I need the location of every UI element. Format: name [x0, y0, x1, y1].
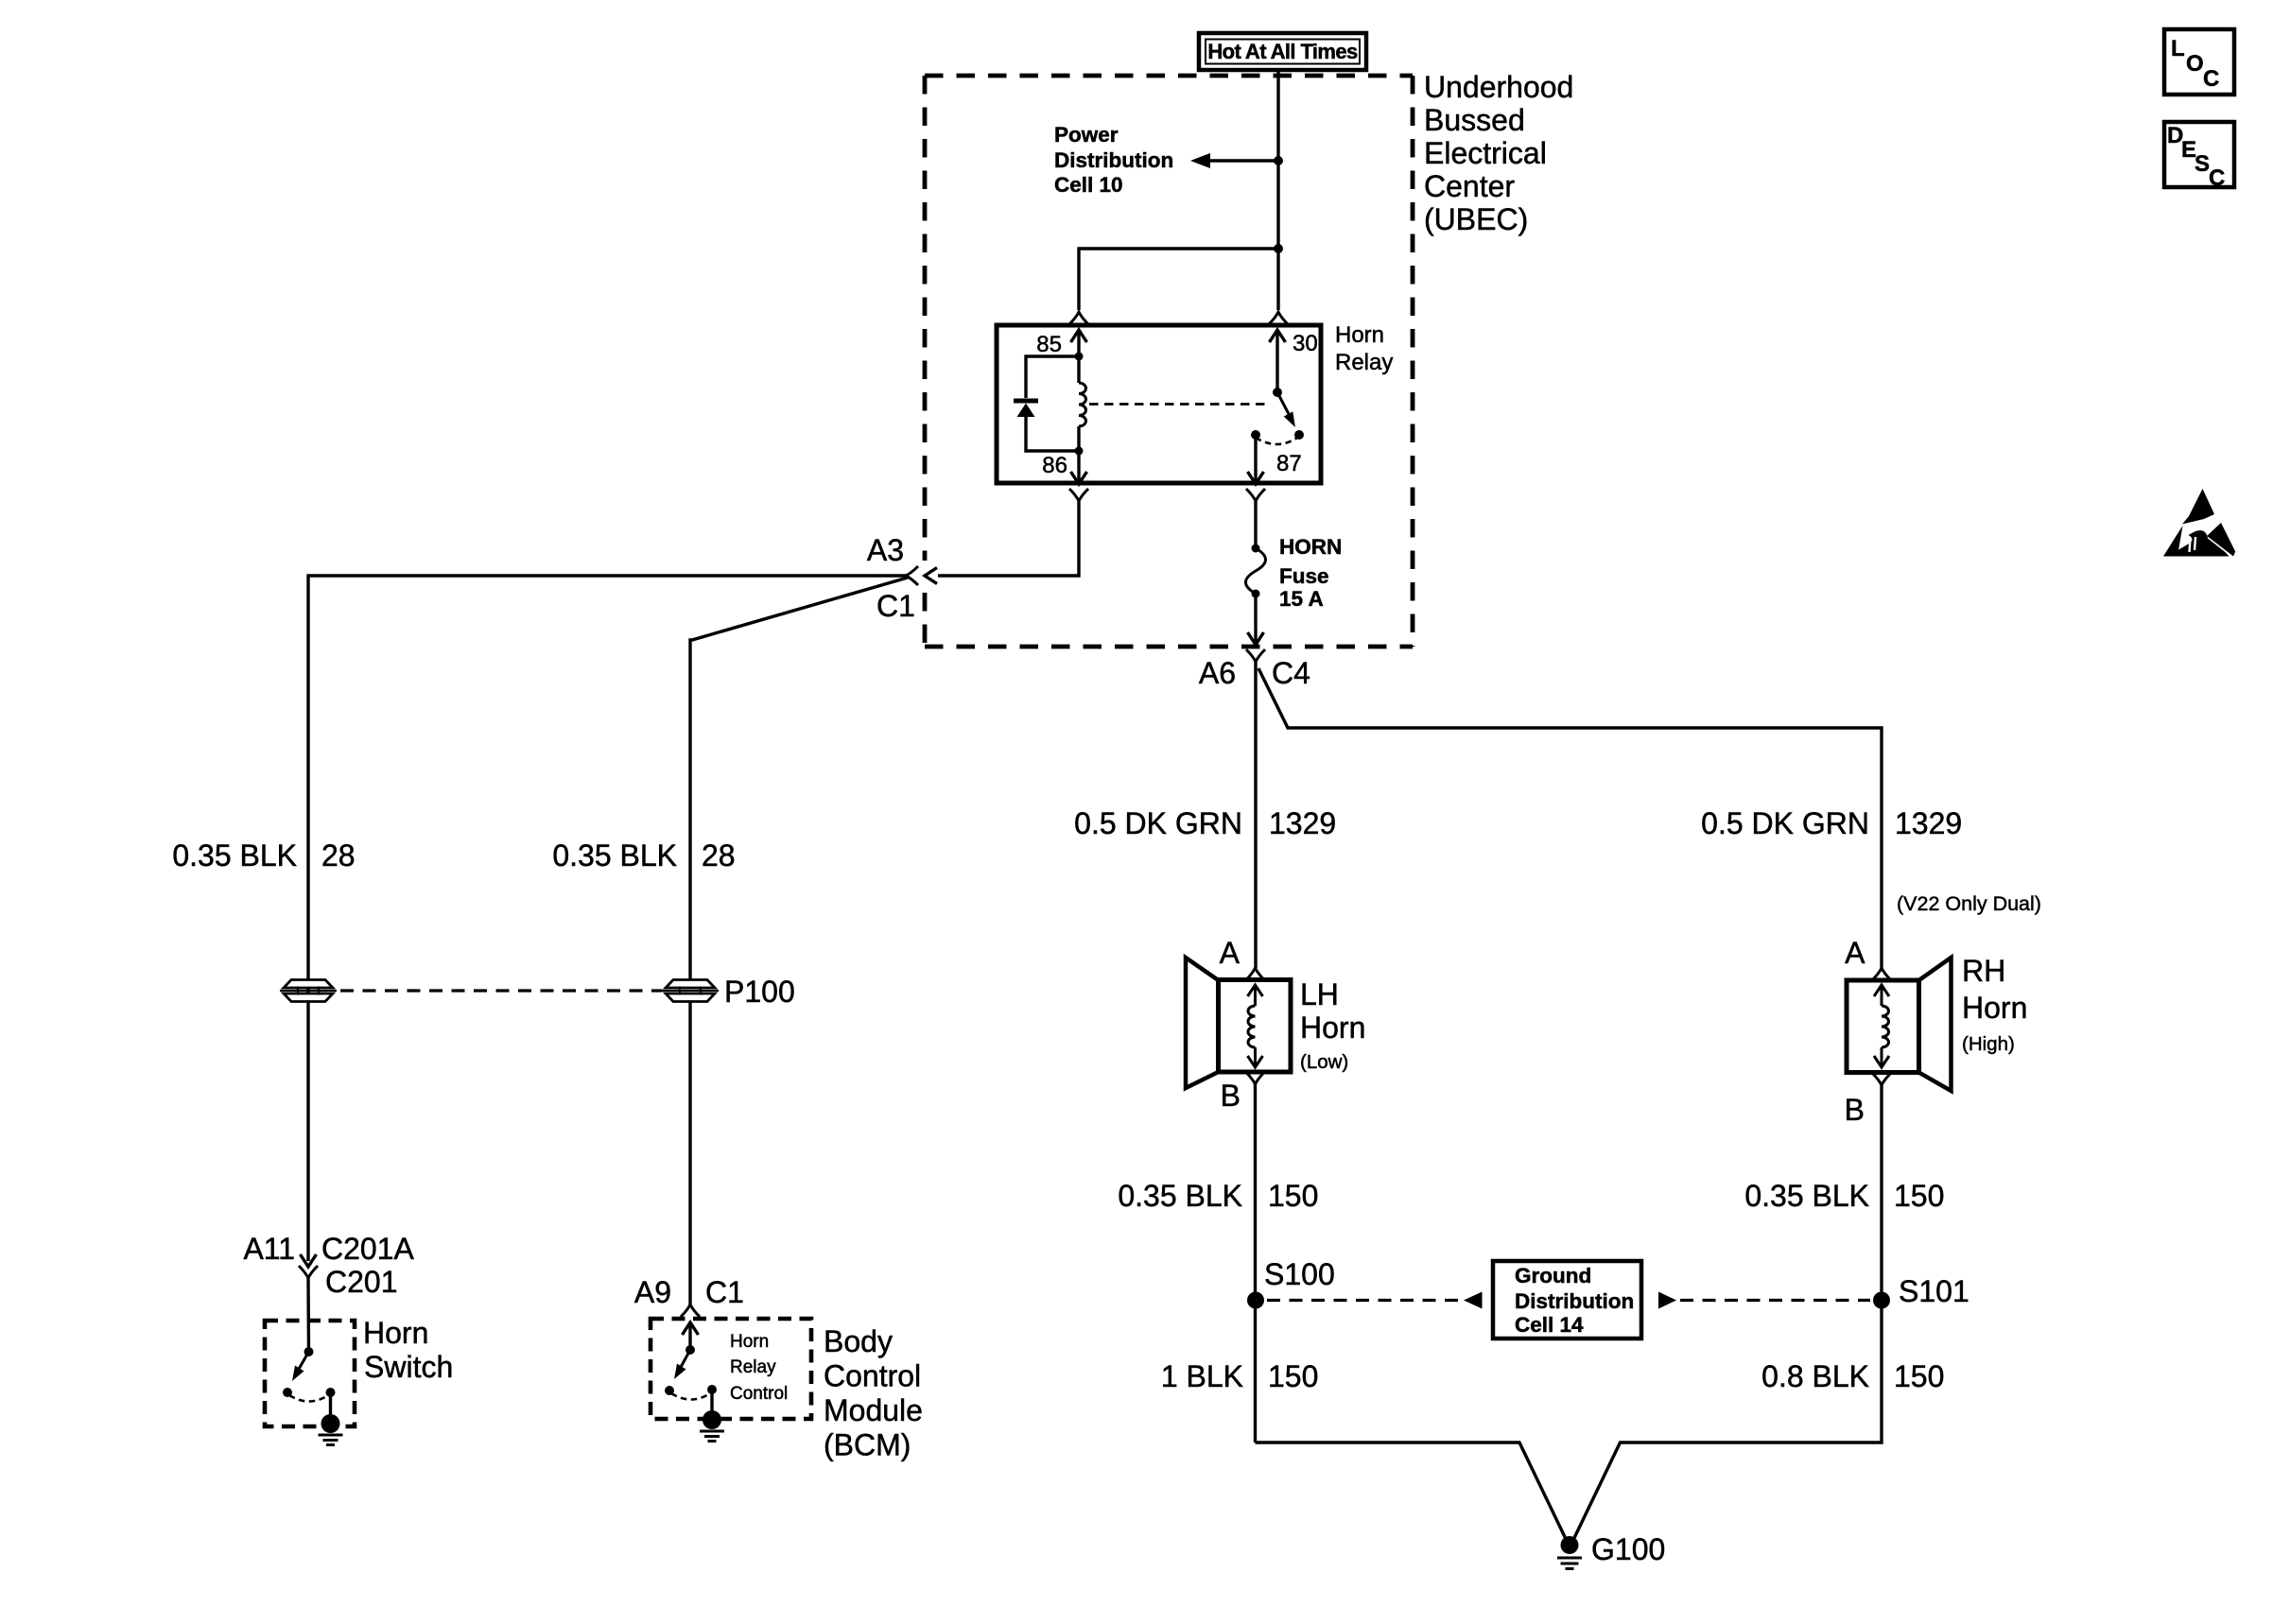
svg-text:Switch: Switch [364, 1350, 453, 1384]
svg-text:C: C [2203, 66, 2219, 92]
relay switch arm with arrowhead [1277, 392, 1295, 427]
dashed link Ground Distribution to S101 [1680, 1299, 1870, 1302]
svg-text:28: 28 [321, 838, 356, 872]
svg-text:HORN: HORN [1279, 535, 1342, 559]
svg-text:Bussed: Bussed [1424, 103, 1525, 137]
svg-text:Hot At All Times: Hot At All Times [1207, 40, 1358, 63]
pin 30: male arrow into relay [1270, 330, 1286, 392]
svg-text:87: 87 [1276, 451, 1302, 476]
label: Power Distribution Cell 10 [1054, 123, 1173, 197]
relay switch: stationary contact dot (pin 87) [1251, 430, 1260, 440]
svg-text:(UBEC): (UBEC) [1424, 202, 1528, 236]
node: splice S100 [1247, 1292, 1264, 1309]
relay switch dashed travel arc [1256, 438, 1297, 444]
svg-text:1 BLK: 1 BLK [1161, 1359, 1243, 1393]
svg-text:A: A [1220, 936, 1241, 970]
svg-text:C: C [2209, 165, 2225, 191]
terminal: female at relay pin 85 [1069, 312, 1088, 324]
pin 85: male arrow into relay [1071, 330, 1087, 356]
svg-text:Fuse: Fuse [1279, 564, 1329, 588]
svg-text:A6: A6 [1199, 656, 1236, 690]
terminal: female at LH horn pin B [1246, 1072, 1265, 1084]
svg-text:150: 150 [1894, 1359, 1944, 1393]
svg-text:Horn: Horn [1300, 1011, 1365, 1045]
node: junction dot to relay coil branch [1274, 244, 1283, 253]
terminal: female below pin 87 [1246, 489, 1265, 501]
svg-text:C1: C1 [876, 589, 915, 623]
BCM switch: pivot node [685, 1345, 695, 1355]
svg-text:15 A: 15 A [1279, 587, 1324, 611]
svg-text:C1: C1 [705, 1275, 744, 1309]
terminal: female at RH horn pin A [1872, 968, 1891, 980]
terminal: female at A9 [681, 1304, 700, 1317]
svg-text:Relay: Relay [1335, 350, 1393, 375]
label: Body Control Module (BCM) [824, 1324, 923, 1462]
relay coil winding [1079, 356, 1086, 451]
BCM switch: dashed travel arc [671, 1393, 710, 1400]
relay actuation dashed link [1089, 403, 1268, 406]
label: Ground Distribution Cell 14 [1515, 1264, 1634, 1337]
wire: branch to relay pin 85 [1079, 249, 1278, 310]
label: 0.35 BLK 28 (BCM wire) [552, 838, 735, 872]
svg-text:Horn: Horn [363, 1316, 428, 1350]
wire: pin 87 down to fuse [1254, 501, 1257, 548]
svg-text:1329: 1329 [1269, 806, 1336, 840]
LOC reference box [2164, 29, 2234, 95]
svg-text:(BCM): (BCM) [824, 1428, 911, 1462]
arrow out of Ground Distribution (right) [1658, 1292, 1676, 1309]
svg-text:Center: Center [1424, 169, 1515, 203]
UBEC label: Underhood Bussed Electrical Center (UBEC) [1424, 70, 1573, 236]
svg-text:(V22 Only Dual): (V22 Only Dual) [1897, 892, 2041, 915]
RH horn body box [1847, 980, 1919, 1073]
relay switch: pivot node on pin 30 [1273, 388, 1282, 397]
relay switch: moving contact dot [1294, 430, 1304, 440]
terminal: female at RH horn pin B [1872, 1073, 1891, 1085]
svg-text:Cell 14: Cell 14 [1515, 1313, 1584, 1337]
horn switch: dashed travel arc [289, 1395, 328, 1402]
svg-text:Horn: Horn [1335, 322, 1384, 348]
svg-text:Power: Power [1054, 123, 1119, 147]
ESD warning triangle symbol [2163, 489, 2235, 557]
svg-text:C201: C201 [325, 1265, 398, 1299]
node: junction dot to Power Distribution [1274, 156, 1283, 165]
svg-text:RH: RH [1962, 954, 2005, 988]
ground G100 stud and symbol [1557, 1536, 1582, 1569]
svg-text:150: 150 [1268, 1359, 1318, 1393]
terminal: female at A6 (harness side) [1246, 649, 1265, 662]
wire: P100 down to A9 [688, 1001, 691, 1304]
svg-text:85: 85 [1036, 332, 1062, 357]
label: RH Horn (High) [1962, 954, 2027, 1055]
wire: horn switch branch (A3 left then down) [308, 576, 906, 1261]
connector P100: pass-through on BCM wire [662, 980, 719, 1002]
terminal: female at relay pin 30 [1269, 312, 1288, 324]
pin 87: male arrow out of relay [1248, 435, 1264, 484]
svg-text:LH: LH [1300, 977, 1339, 1011]
svg-text:28: 28 [702, 838, 736, 872]
terminal: female at C201 [299, 1266, 318, 1278]
svg-text:B: B [1845, 1093, 1865, 1127]
horn switch: wire to ground stud [329, 1392, 332, 1424]
terminal: male arrow up into BCM [683, 1322, 699, 1350]
svg-text:S101: S101 [1899, 1274, 1969, 1308]
svg-text:(Low): (Low) [1300, 1051, 1348, 1073]
svg-text:Electrical: Electrical [1424, 136, 1547, 170]
RH horn speaker flare [1919, 958, 1952, 1091]
wire: BCM branch diagonal from C1 [690, 578, 908, 980]
svg-text:Control: Control [824, 1359, 921, 1393]
svg-text:Relay: Relay [730, 1357, 776, 1377]
svg-text:Horn: Horn [730, 1332, 769, 1352]
svg-text:Distribution: Distribution [1515, 1289, 1634, 1313]
node: relay coil bottom junction [1075, 447, 1084, 456]
DESC reference box [2164, 122, 2234, 191]
svg-text:0.35 BLK: 0.35 BLK [1744, 1179, 1869, 1213]
horn switch: arm with arrowhead [292, 1352, 309, 1381]
fuse: HORN Fuse 15 A [1246, 544, 1266, 598]
wire: C201 into horn switch [306, 1278, 310, 1352]
label: 0.8 BLK 150 [1761, 1359, 1944, 1393]
wire: branch to RH horn (diagonal and across) [1258, 668, 1882, 968]
node: relay coil top junction [1075, 353, 1084, 361]
svg-text:S: S [2195, 151, 2210, 177]
svg-text:B: B [1221, 1079, 1241, 1113]
svg-text:Body: Body [824, 1324, 893, 1358]
UBEC dashed boundary box [925, 76, 1413, 647]
relay: Horn Relay box [997, 325, 1321, 483]
RH horn coil element with arrows [1874, 985, 1889, 1067]
svg-text:A: A [1845, 936, 1865, 970]
BCM dashed box [651, 1319, 811, 1419]
svg-text:C201A: C201A [321, 1232, 415, 1266]
horn switch: pivot node [304, 1347, 314, 1356]
svg-text:Ground: Ground [1515, 1264, 1591, 1287]
svg-text:A11: A11 [243, 1232, 295, 1266]
horn switch: ground-side contact [326, 1388, 336, 1397]
BCM switch: stationary contact [665, 1386, 674, 1395]
dashed link between P100 halves [340, 989, 662, 992]
svg-text:P100: P100 [724, 975, 795, 1009]
label: Horn Relay Control [730, 1332, 788, 1404]
terminal: male arrow at A3 (inside UBEC) [925, 568, 937, 584]
svg-text:G100: G100 [1591, 1532, 1665, 1566]
terminal: female at LH horn pin A [1246, 968, 1265, 980]
svg-text:L: L [2171, 36, 2185, 61]
wire: S100 to G100 [1256, 1443, 1567, 1540]
svg-text:Cell 10: Cell 10 [1054, 173, 1123, 197]
label: Horn Relay [1335, 322, 1393, 375]
LH horn coil element with arrows [1248, 985, 1263, 1067]
label: HORN Fuse 15 A [1279, 535, 1342, 611]
terminal: female at A3 (harness side) [906, 566, 918, 585]
BCM internal ground [700, 1410, 724, 1442]
BCM switch: arm with arrowhead [674, 1350, 690, 1379]
Hot At All Times power feed box [1199, 33, 1366, 70]
label: 0.5 DK GRN 1329 (RH) [1701, 806, 1962, 840]
svg-text:Underhood: Underhood [1424, 70, 1573, 104]
svg-text:0.8 BLK: 0.8 BLK [1761, 1359, 1869, 1393]
svg-text:(High): (High) [1962, 1033, 2015, 1055]
svg-text:0.35 BLK: 0.35 BLK [172, 838, 297, 872]
terminal: male arrow at A11 [301, 1254, 317, 1267]
label: 0.35 BLK 150 (LH) [1118, 1179, 1318, 1213]
Ground Distribution Cell 14 box [1493, 1261, 1641, 1339]
pin 86: male arrow out of relay [1071, 451, 1087, 484]
wire: S101 down and to G100 [1573, 1301, 1882, 1541]
label: 1 BLK 150 [1161, 1359, 1319, 1393]
horn switch: stationary contact [283, 1388, 292, 1397]
svg-text:C4: C4 [1272, 656, 1310, 690]
BCM switch: wire to ground stud [710, 1390, 713, 1420]
LH horn body box [1219, 980, 1292, 1073]
svg-text:S100: S100 [1264, 1257, 1335, 1291]
svg-text:86: 86 [1042, 453, 1067, 478]
label: 0.5 DK GRN 1329 (LH) [1074, 806, 1336, 840]
svg-text:0.35 BLK: 0.35 BLK [552, 838, 677, 872]
svg-text:A3: A3 [867, 533, 904, 567]
Horn Switch dashed box [265, 1321, 355, 1426]
label: 0.35 BLK 28 (horn switch wire) [172, 838, 355, 872]
wire: battery feed from Hot At All Times down to relay pin 30 [1276, 70, 1279, 310]
wire: LH horn pin B down to S100 [1254, 1084, 1257, 1443]
wire: RH horn pin B down to S101 [1880, 1085, 1883, 1301]
dashed link S100 to Ground Distribution [1267, 1299, 1462, 1302]
terminal: female below pin 86 [1069, 489, 1088, 501]
svg-text:Control: Control [730, 1384, 788, 1404]
svg-text:150: 150 [1894, 1179, 1944, 1213]
svg-text:1329: 1329 [1895, 806, 1962, 840]
wire: Power Distribution branch with arrow [1190, 153, 1278, 168]
wire: A6/C4 down to LH horn [1254, 662, 1257, 968]
node: splice S101 [1873, 1292, 1890, 1309]
svg-text:150: 150 [1268, 1179, 1318, 1213]
svg-text:O: O [2186, 51, 2204, 77]
svg-text:Module: Module [824, 1393, 923, 1427]
LH horn speaker flare [1186, 958, 1219, 1088]
label: 0.35 BLK 150 (RH) [1744, 1179, 1944, 1213]
diode D1 (relay clamp diode) [1014, 356, 1079, 451]
svg-text:Distribution: Distribution [1054, 148, 1173, 172]
svg-text:0.35 BLK: 0.35 BLK [1118, 1179, 1242, 1213]
horn switch: chassis ground [319, 1414, 343, 1445]
connector P100: pass-through on horn switch wire [280, 980, 337, 1002]
label: Horn Switch [363, 1316, 453, 1384]
wire: pin 86 to A3 connector [938, 501, 1079, 576]
svg-text:30: 30 [1293, 331, 1318, 356]
svg-text:A9: A9 [634, 1275, 671, 1309]
arrow into Ground Distribution (left) [1464, 1292, 1483, 1309]
BCM switch: ground-side contact [707, 1385, 717, 1394]
svg-text:Horn: Horn [1962, 991, 2027, 1025]
svg-text:0.5 DK GRN: 0.5 DK GRN [1074, 806, 1242, 840]
svg-text:0.5 DK GRN: 0.5 DK GRN [1701, 806, 1869, 840]
wire: fuse to A6 with male arrow at UBEC border [1248, 594, 1264, 645]
label: LH Horn (Low) [1300, 977, 1365, 1073]
